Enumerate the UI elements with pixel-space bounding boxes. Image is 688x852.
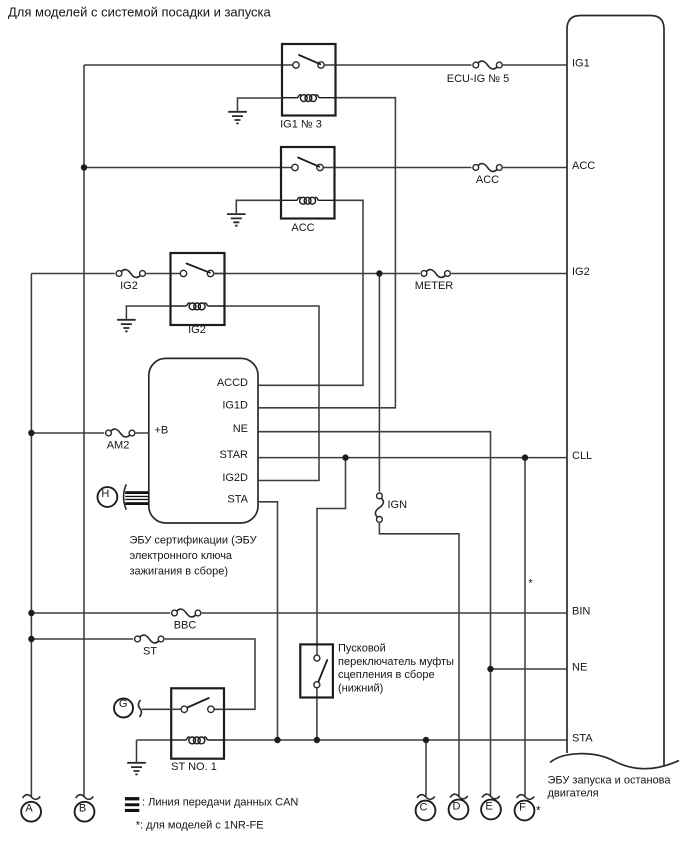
wire STA: U1 STA pin down to STA bus	[258, 502, 278, 740]
svg-text:переключатель муфты: переключатель муфты	[338, 656, 454, 668]
svg-text:ACC: ACC	[476, 174, 499, 186]
connector H with CAN twisted pair symbol	[98, 484, 149, 509]
wire IG1 net: relay IG1 №3 to fuse ECU-IG №5 to IG1 pin	[336, 64, 568, 66]
junction: IG2 net / IGN branch	[376, 270, 382, 276]
svg-text:D: D	[453, 801, 461, 813]
fuse ECU-IG №5	[447, 58, 510, 85]
svg-text:ACC: ACC	[291, 222, 314, 234]
svg-text:ACC: ACC	[572, 160, 595, 172]
svg-text:электронного ключа: электронного ключа	[130, 550, 233, 562]
fuse ST	[133, 632, 165, 658]
fuse METER	[415, 267, 454, 293]
wire IG1 net: B riser to IG1 relay switch	[84, 64, 293, 66]
legend CAN symbol	[125, 797, 299, 813]
svg-text:ЭБУ запуска и останова: ЭБУ запуска и останова	[548, 775, 672, 787]
junction: A riser / ST wire	[28, 636, 34, 642]
svg-text:ECU-IG № 5: ECU-IG № 5	[447, 73, 510, 85]
junction: B riser / ACC net	[81, 164, 87, 170]
wire ACC net: B riser to ACC relay switch	[84, 167, 292, 169]
svg-text:*: для моделей с 1NR-FE: *: для моделей с 1NR-FE	[136, 820, 264, 832]
svg-text:METER: METER	[415, 280, 454, 292]
junction: NE net / U2 NE pin branch	[487, 666, 493, 672]
svg-text:ST: ST	[143, 646, 157, 658]
junction: A riser / +B wire	[28, 430, 34, 436]
svg-text:Для моделей с системой посадки: Для моделей с системой посадки и запуска	[8, 5, 272, 20]
svg-text:*: *	[528, 578, 533, 590]
fuse AM2	[104, 426, 136, 452]
wire BIN net: A riser through fuse BBC to BIN pin	[31, 612, 567, 614]
svg-text:IG2D: IG2D	[222, 472, 248, 484]
svg-text:NE: NE	[572, 661, 587, 673]
ground for relay ST NO.1	[127, 740, 146, 774]
svg-text:C: C	[420, 802, 428, 814]
wire IG1 relay coil to IG1D pin	[258, 98, 395, 408]
connector A	[21, 795, 41, 822]
svg-text:+B: +B	[155, 425, 169, 437]
wire NE branch to U2 NE pin	[491, 668, 568, 670]
svg-text:CLL: CLL	[572, 450, 592, 462]
svg-text:ACCD: ACCD	[217, 377, 248, 389]
svg-text:NE: NE	[233, 423, 248, 435]
wire STA branch to connector C drop	[425, 740, 427, 797]
connector E	[481, 794, 501, 819]
ground for relay ACC	[227, 200, 281, 225]
wire A riser (feed from connector A)	[30, 274, 32, 798]
wire STA bus: ST NO.1 coil to U2 STA pin	[224, 739, 567, 741]
svg-text:*: *	[536, 804, 541, 818]
svg-text:B: B	[79, 803, 86, 815]
wire STAR/CLL: U1 STAR pin to U2 CLL pin	[258, 457, 567, 459]
wire STAR branch to clutch start switch	[317, 458, 346, 656]
connector F	[515, 795, 541, 821]
svg-text:E: E	[485, 801, 492, 813]
wire ST net: A riser through fuse ST to ST NO.1 relay switch	[31, 639, 255, 709]
junction: STA bus / U1 STA branch	[274, 737, 280, 743]
label ЭБУ сертификации caption	[130, 535, 258, 578]
svg-text:F: F	[519, 802, 526, 814]
svg-text:двигателя: двигателя	[548, 788, 599, 800]
clutch start switch S1 (Пусковой переключатель муфты сцепления)	[300, 644, 333, 697]
svg-text:G: G	[119, 698, 128, 710]
relay IG2	[171, 253, 225, 336]
wire clutch switch to STA bus	[316, 688, 318, 740]
junction: STA bus / clutch switch	[314, 737, 320, 743]
wire ST NO.1 coil to ground riser	[137, 739, 172, 741]
svg-text:зажигания в сборе): зажигания в сборе)	[130, 565, 229, 577]
wire B riser (top feed from connector B)	[83, 65, 85, 797]
fuse IGN (vertical)	[372, 492, 407, 523]
svg-text:IG1: IG1	[572, 57, 590, 69]
svg-text:IG2: IG2	[572, 266, 590, 278]
ECU U2 (ЭБУ запуска и останова двигателя) outline	[550, 16, 679, 769]
svg-text:H: H	[101, 488, 109, 500]
wire ACC net: relay ACC to fuse ACC to ACC pin	[335, 167, 568, 169]
ECU U1 (ЭБУ сертификации) outline	[149, 358, 258, 523]
svg-text:сцепления в сборе: сцепления в сборе	[338, 669, 435, 681]
wire IG2 net: relay IG2 to fuse METER to IG2 pin	[214, 273, 567, 275]
wire NE: U1 NE pin to U2 NE pin and connector E drop	[258, 432, 491, 797]
ground for relay IG2	[117, 306, 170, 331]
connector C	[416, 795, 436, 821]
label clutch start switch caption	[338, 643, 454, 695]
fuse ACC	[472, 161, 504, 187]
wire CLL branch to connector F drop	[524, 458, 526, 797]
svg-text:(нижний): (нижний)	[338, 682, 383, 694]
junction: STA bus / connector C branch	[423, 737, 429, 743]
wire ACC relay coil to ACCD pin	[258, 200, 363, 385]
svg-text:IG2: IG2	[120, 280, 138, 292]
wire IG2 relay coil to IG2D pin	[225, 306, 320, 481]
relay IG1 №3	[280, 44, 335, 131]
fuse IG2	[115, 267, 147, 293]
svg-text:AM2: AM2	[107, 440, 130, 452]
wire +B: A riser through fuse AM2 to +B pin	[31, 432, 148, 434]
svg-text:BIN: BIN	[572, 605, 590, 617]
svg-text:ЭБУ сертификации (ЭБУ: ЭБУ сертификации (ЭБУ	[130, 535, 258, 547]
wire IGN fuse to connector D drop	[379, 522, 459, 796]
svg-text:Пусковой: Пусковой	[338, 643, 386, 655]
svg-text:: Линия передачи данных CAN: : Линия передачи данных CAN	[142, 797, 298, 809]
connector D	[449, 794, 469, 819]
svg-text:IGN: IGN	[388, 499, 408, 511]
relay ACC	[281, 147, 335, 234]
svg-text:ST NO. 1: ST NO. 1	[171, 761, 217, 773]
svg-text:A: A	[25, 803, 33, 815]
svg-text:STA: STA	[572, 732, 593, 744]
connector G	[114, 698, 171, 718]
svg-text:IG1D: IG1D	[222, 399, 248, 411]
svg-text:IG1 № 3: IG1 № 3	[280, 119, 322, 131]
svg-text:STAR: STAR	[219, 449, 248, 461]
relay ST NO.1	[171, 688, 224, 773]
fuse BBC	[170, 606, 202, 632]
wire IGN branch: IG2 net to fuse IGN	[378, 274, 380, 494]
svg-text:BBC: BBC	[174, 620, 197, 632]
junction: STAR net / clutch switch branch	[342, 454, 348, 460]
junction: CLL net / connector F branch	[522, 454, 528, 460]
wire IG2 net: A riser to fuse IG2 to IG2 relay switch	[31, 273, 180, 275]
svg-text:IG2: IG2	[188, 324, 206, 336]
svg-text:STA: STA	[227, 493, 248, 505]
ground for relay IG1 №3	[228, 98, 282, 123]
connector B	[75, 795, 95, 822]
junction: A riser / BBC wire	[28, 610, 34, 616]
label ЭБУ запуска и останова двигателя	[548, 775, 672, 800]
